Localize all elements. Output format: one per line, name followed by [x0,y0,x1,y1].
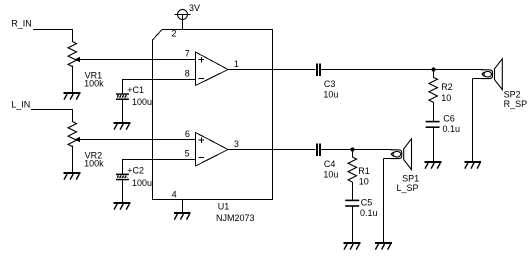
svg-text:R_SP: R_SP [504,99,528,109]
svg-text:3: 3 [234,139,239,149]
svg-text:C6: C6 [443,114,455,124]
svg-text:3V: 3V [189,3,200,13]
svg-text:100u: 100u [132,97,152,107]
svg-text:100k: 100k [84,79,104,89]
svg-text:R_IN: R_IN [11,19,32,29]
svg-text:7: 7 [185,48,190,58]
svg-text:0.1u: 0.1u [443,124,461,134]
svg-text:L_SP: L_SP [397,183,419,193]
svg-text:R2: R2 [441,82,453,92]
svg-text:SP2: SP2 [504,89,521,99]
svg-text:L_IN: L_IN [11,100,30,110]
svg-text:10u: 10u [323,170,338,180]
svg-text:10: 10 [359,176,369,186]
svg-text:10: 10 [441,93,451,103]
svg-text:4: 4 [172,189,177,199]
svg-text:10u: 10u [323,90,338,100]
svg-text:U1: U1 [218,201,230,211]
svg-text:5: 5 [185,149,190,159]
svg-text:C4: C4 [324,159,336,169]
svg-text:1: 1 [234,59,239,69]
svg-text:2: 2 [172,29,177,39]
svg-text:6: 6 [185,129,190,139]
svg-text:+C2: +C2 [127,166,144,176]
svg-text:C3: C3 [324,79,336,89]
svg-text:R1: R1 [358,166,370,176]
svg-text:SP1: SP1 [402,173,419,183]
svg-text:100u: 100u [132,178,152,188]
svg-text:0.1u: 0.1u [360,208,378,218]
svg-text:100k: 100k [84,159,104,169]
svg-text:C5: C5 [361,197,373,207]
svg-text:NJM2073: NJM2073 [216,213,255,223]
svg-text:+C1: +C1 [127,85,144,95]
svg-text:8: 8 [185,69,190,79]
